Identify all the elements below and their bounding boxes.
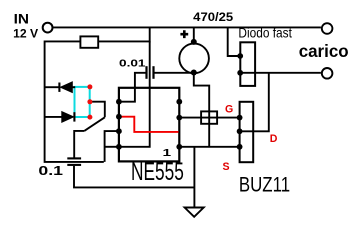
node P1 wiper xyxy=(87,99,92,104)
wire top +12V rail xyxy=(53,26,321,28)
wire rail to resistor R1 xyxy=(45,27,150,162)
junction U1 pin threshold xyxy=(116,128,122,134)
wire C3 minus to ground net xyxy=(194,73,209,147)
junction U1 right pin top xyxy=(176,99,182,105)
node P1 terminal bottom xyxy=(87,115,92,120)
diode D1 xyxy=(61,82,73,93)
wire supply riser into U1 xyxy=(119,41,150,146)
potentiometer P1 body xyxy=(75,87,90,117)
wire U1 output to gate xyxy=(179,117,239,119)
junction U1 pin 1 gnd xyxy=(176,144,182,150)
junction Q1 drain xyxy=(237,128,243,134)
capacitor C1 0.1 bottom plate xyxy=(67,164,81,166)
IC U1 NE555 box xyxy=(119,88,179,162)
diode D2 cathode bar xyxy=(73,112,75,121)
transistor Q1 BUZ11 body xyxy=(240,102,254,162)
diode D3 Diodo fast body xyxy=(240,42,255,86)
capacitor C3 470/25 electrolytic xyxy=(179,44,209,74)
wire switch common to U1 pins xyxy=(105,131,119,162)
svg-text:BUZ11: BUZ11 xyxy=(239,173,290,197)
wire D1 to P1 xyxy=(72,86,75,88)
junction Q1 gate xyxy=(237,115,243,121)
diode D1 cathode bar xyxy=(58,83,60,92)
wire C1 bottom to ground rail xyxy=(74,166,194,188)
svg-text:carico: carico xyxy=(299,41,349,61)
wire pin 4 stub xyxy=(105,146,119,148)
diode D2 wire xyxy=(45,116,62,118)
output terminal carico top xyxy=(322,23,333,34)
svg-text:Diodo fast: Diodo fast xyxy=(238,24,292,40)
svg-text:D: D xyxy=(270,133,278,145)
wire rail to D3 xyxy=(228,27,240,56)
junction U1 pin top-left xyxy=(116,99,122,105)
wire C2 to C3 minus xyxy=(155,72,194,74)
wire drain to node D xyxy=(240,73,269,132)
output terminal carico bottom xyxy=(322,68,333,79)
junction U1 pin Vcc xyxy=(116,144,122,150)
svg-text:IN: IN xyxy=(14,12,29,27)
resistor R1 xyxy=(80,36,98,47)
wire ground drop xyxy=(193,147,195,208)
wire source row xyxy=(179,146,239,148)
node P1 terminal top xyxy=(87,84,92,89)
capacitor C2 0.01 right plate xyxy=(152,66,154,79)
junction D3 anode xyxy=(237,70,243,76)
junction U1 pin trigger xyxy=(116,114,122,120)
junction D3 cathode xyxy=(237,53,243,59)
switch SW1 blade xyxy=(84,117,105,131)
wire rail to C3 plus xyxy=(193,27,195,43)
svg-text:470/25: 470/25 xyxy=(193,10,233,24)
svg-text:NE555: NE555 xyxy=(131,158,184,186)
svg-text:12 V: 12 V xyxy=(13,27,38,41)
svg-text:0.01: 0.01 xyxy=(119,59,146,70)
junction C3 plus xyxy=(191,39,197,45)
svg-text:G: G xyxy=(225,104,233,116)
junction Q1 source xyxy=(237,144,243,150)
capacitor C2 0.01 left plate xyxy=(145,66,147,79)
diode D2 xyxy=(62,112,74,123)
svg-text:1: 1 xyxy=(163,148,172,159)
wire D3 to carico xyxy=(240,72,321,74)
junction C3 minus xyxy=(191,70,197,76)
svg-text:0.1: 0.1 xyxy=(38,163,63,178)
wire pin to C2 0.01 xyxy=(119,73,146,102)
wire discharge net (red) xyxy=(119,117,179,132)
wire to timing capacitor C1 xyxy=(74,131,84,158)
svg-text:S: S xyxy=(223,161,230,173)
diode D1 wire xyxy=(45,86,59,88)
junction U1 pin output xyxy=(176,115,182,121)
capacitor C1 0.1 top plate xyxy=(67,157,81,159)
plus sign C3 xyxy=(180,30,188,38)
input terminal IN xyxy=(43,23,53,33)
resistor R2 gate xyxy=(201,111,217,123)
ground xyxy=(185,208,204,217)
wire P1 wiper xyxy=(90,102,105,118)
